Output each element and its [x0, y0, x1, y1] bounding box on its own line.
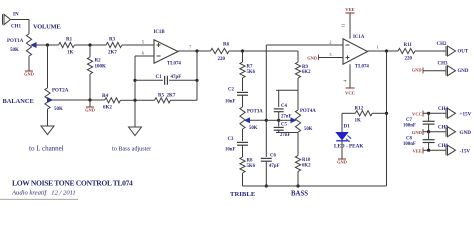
svg-text:to Bass adjuster: to Bass adjuster [112, 146, 151, 153]
pin 2 label IC1A [329, 40, 332, 45]
label BALANCE [3, 98, 34, 105]
svg-text:1K: 1K [355, 119, 362, 124]
resistor R8 5K6 [240, 157, 256, 173]
svg-text:R3: R3 [109, 38, 116, 43]
wire R10 to bottom rail [297, 172, 299, 187]
svg-text:VEE: VEE [345, 7, 354, 12]
wire wiper line to C4C5 node [266, 119, 278, 121]
svg-text:GND: GND [337, 160, 347, 165]
svg-text:27nF: 27nF [280, 133, 290, 138]
connector CH3 ground [438, 62, 456, 76]
svg-text:100nF: 100nF [403, 124, 416, 129]
svg-text:10nF: 10nF [225, 100, 235, 105]
resistor R10 6K2 [295, 156, 311, 172]
wiper POT1A to node A [32, 43, 48, 47]
wire CH1 to volume pot [11, 20, 29, 35]
wire C1 row right [169, 79, 197, 81]
capacitor C2 10nF [225, 88, 248, 105]
connector CH6 -15V [438, 144, 456, 155]
wire rail to bass column [243, 51, 299, 62]
svg-text:6K2: 6K2 [103, 106, 112, 111]
wire IC1B output pin7 [178, 50, 197, 52]
svg-text:R4: R4 [102, 94, 109, 99]
svg-text:to L channel: to L channel [29, 145, 64, 153]
label TRIBLE [230, 191, 256, 198]
svg-text:TL074: TL074 [355, 65, 369, 70]
node F junction C1 right [195, 79, 198, 82]
node J junction C4 C5 wiper [277, 119, 280, 122]
svg-text:47pF: 47pF [171, 75, 182, 80]
svg-text:R5: R5 [158, 94, 165, 99]
svg-text:Audio kreatif 12 / 2011: Audio kreatif 12 / 2011 [11, 190, 76, 197]
svg-text:CH2: CH2 [437, 42, 448, 47]
node E junction C1 left [133, 79, 136, 82]
svg-text:100nF: 100nF [403, 142, 416, 147]
label VOLUME [33, 24, 60, 31]
pin 1 label IC1A [377, 45, 380, 50]
svg-text:50K: 50K [10, 48, 19, 53]
svg-text:C5: C5 [281, 122, 287, 127]
wire D1 to ground [341, 141, 343, 159]
wire bottom feedback rail [243, 185, 387, 187]
svg-text:R10: R10 [302, 158, 311, 163]
resistor R12 1K [342, 107, 387, 124]
wire R8 to bottom rail [242, 173, 244, 186]
power port VCC supply [412, 111, 446, 117]
wire R1 to R3 node [75, 44, 107, 46]
wire POT1A to ground [28, 56, 30, 71]
svg-text:C1: C1 [156, 75, 163, 80]
resistor R3 2K7 [106, 38, 122, 56]
op-amp IC1B triangle [154, 40, 178, 63]
resistor R6 220 [197, 43, 243, 63]
wire output bus down [196, 51, 198, 100]
svg-text:220: 220 [405, 57, 413, 62]
svg-text:C4: C4 [281, 104, 287, 109]
potentiometer POT4A bass 50K [295, 90, 316, 132]
node C junction R2 R4 GND [88, 98, 91, 101]
label IC1A [353, 35, 365, 40]
svg-text:C8: C8 [406, 137, 412, 142]
svg-text:TL074: TL074 [167, 62, 181, 67]
svg-text:100K: 100K [95, 65, 107, 70]
svg-text:GND: GND [458, 69, 469, 74]
potentiometer POT1A volume 50K [7, 34, 32, 56]
label D1 [344, 125, 351, 130]
node M output IC1A [385, 49, 388, 52]
svg-text:6K2: 6K2 [302, 164, 311, 169]
label TL074 of IC1A [355, 65, 369, 70]
node A junction volume wiper [46, 43, 49, 46]
wire output down to rail [386, 51, 388, 186]
svg-text:OUT: OUT [458, 49, 469, 54]
label LED PEAK [334, 144, 363, 150]
wire pin2 from bus [266, 44, 343, 46]
wire C4 to node J [278, 112, 280, 121]
wire R7 to C2 [242, 78, 244, 91]
svg-text:CH6: CH6 [438, 144, 449, 149]
label +15V [460, 112, 472, 118]
capacitor C8 100nF [403, 132, 435, 151]
svg-text:POT2A: POT2A [52, 89, 69, 94]
title text [12, 179, 133, 188]
wiper POT2A to ground node [48, 98, 91, 102]
wire IC1A output [368, 50, 387, 52]
connector CH1 input port [3, 13, 22, 30]
label OUT [458, 49, 469, 54]
svg-text:2K7: 2K7 [108, 51, 117, 56]
svg-text:11: 11 [341, 23, 346, 27]
wiper POT3A [245, 118, 266, 122]
wire inverting bus [265, 45, 267, 157]
connector CH2 output [437, 42, 456, 56]
resistor R2 100K vertical [87, 45, 106, 100]
power port VEE top [345, 7, 354, 13]
svg-text:50K: 50K [304, 127, 313, 132]
ground GND at node C [85, 100, 95, 113]
svg-text:BALANCE: BALANCE [3, 98, 34, 105]
resistor R1 1K [59, 38, 75, 56]
wire C2 to POT3A [242, 95, 244, 107]
svg-text:GND: GND [412, 68, 422, 73]
resistor R9 6K2 [295, 62, 311, 78]
connector CH5 GND [438, 125, 456, 136]
capacitor C5 27nF [274, 120, 291, 138]
node G junction R4 R5 pin6bus [133, 99, 136, 102]
potentiometer POT2A balance 50K [45, 88, 69, 112]
off-page arrow to Bass adjuster [129, 100, 142, 135]
svg-text:-15V: -15V [460, 149, 471, 155]
svg-text:C3: C3 [228, 137, 234, 142]
wire R3 to IC1B pin5 [122, 44, 154, 46]
wire POT3A to C3 [242, 129, 244, 141]
svg-text:10nF: 10nF [225, 148, 235, 153]
svg-text:R2: R2 [95, 59, 102, 64]
pin 6 label IC1B [142, 51, 145, 56]
label GND output [458, 69, 469, 74]
power port GND at pin3 [307, 55, 343, 61]
wire R12 to D1 [341, 113, 343, 132]
potentiometer POT3A treble 50K [240, 107, 263, 131]
wire C5 to bass bottom node [276, 130, 298, 132]
svg-text:R11: R11 [404, 43, 413, 48]
label to L channel [29, 145, 64, 153]
svg-text:IC1B: IC1B [154, 30, 166, 35]
capacitor C3 10nF [225, 137, 248, 153]
svg-text:VCC: VCC [345, 91, 355, 96]
svg-text:27nF: 27nF [281, 115, 291, 120]
pin 3 label IC1A [329, 52, 332, 57]
wire C6 to bottom rail [265, 161, 267, 186]
svg-text:1K: 1K [67, 51, 74, 56]
wire C3 to R8 [242, 145, 244, 157]
capacitor C4 27nF [274, 104, 292, 120]
ground GND below D1 [337, 159, 347, 165]
resistor R11 220 [387, 43, 447, 62]
resistor R4 6K2 [90, 94, 135, 111]
pin 11 wire and VEE [341, 13, 351, 39]
svg-text:R12: R12 [355, 107, 364, 112]
svg-text:R6: R6 [223, 43, 230, 48]
svg-text:50K: 50K [54, 107, 63, 112]
node L bottom rail bass [296, 184, 299, 187]
node N junction R12 [385, 112, 388, 115]
label IC1B [154, 30, 166, 35]
node K bottom rail treble bus [265, 184, 268, 187]
svg-text:47pF: 47pF [269, 164, 279, 169]
wire pin6 bus down [134, 56, 136, 126]
node Q junction GND bus [427, 130, 430, 133]
svg-text:GND: GND [85, 108, 95, 113]
wiper POT4A [279, 118, 296, 122]
svg-text:R8: R8 [247, 159, 253, 164]
svg-text:VEE: VEE [413, 149, 422, 154]
connector CH4 +15V [438, 107, 456, 118]
node H junction treble top [241, 49, 244, 52]
svg-text:R7: R7 [247, 65, 253, 70]
label GND supply [460, 130, 472, 136]
off-page arrow to L channel [41, 126, 54, 135]
label BASS [291, 191, 308, 198]
svg-text:50K: 50K [249, 126, 258, 131]
node B junction R2 top [88, 43, 91, 46]
svg-text:D1: D1 [344, 125, 351, 130]
wire bass to R10 [297, 133, 299, 156]
svg-text:CH3: CH3 [438, 62, 449, 67]
power port VEE supply [413, 148, 446, 154]
pin 5 label IC1B [142, 40, 145, 45]
power port GND to CH3 [412, 68, 446, 74]
wire node A to R1 [48, 44, 59, 46]
label TL074 of IC1B [167, 62, 181, 67]
svg-text:GND: GND [412, 130, 423, 135]
capacitor C1 47pF [156, 75, 182, 85]
svg-text:CH1: CH1 [11, 25, 22, 30]
svg-text:C2: C2 [228, 88, 234, 93]
svg-text:6K2: 6K2 [302, 70, 311, 75]
wire POT2A to L-channel arrow [47, 109, 49, 126]
svg-text:IC1A: IC1A [353, 35, 365, 40]
node D output IC1B junction [195, 49, 198, 52]
svg-text:POT1A: POT1A [7, 39, 24, 44]
svg-text:CH4: CH4 [438, 107, 449, 112]
svg-text:+15V: +15V [460, 112, 472, 118]
svg-text:220: 220 [218, 57, 226, 62]
wire node A down to POT2A [47, 45, 49, 88]
capacitor C7 100nF [403, 113, 435, 131]
resistor R7 5K6 [240, 51, 256, 78]
power port GND supply [412, 129, 446, 135]
title block line [0, 198, 78, 200]
svg-text:TRIBLE: TRIBLE [230, 191, 256, 198]
label -15V [460, 149, 471, 155]
pin 7 label IC1B [189, 45, 192, 50]
svg-text:LOW NOISE TONE CONTROL TL074: LOW NOISE TONE CONTROL TL074 [12, 179, 133, 188]
pin 4 wire and VCC [343, 64, 351, 88]
svg-text:CH5: CH5 [438, 125, 449, 130]
op-amp IC1A triangle [343, 39, 368, 64]
svg-text:VOLUME: VOLUME [33, 24, 60, 31]
subtitle text [11, 190, 76, 197]
svg-text:POT3A: POT3A [247, 110, 263, 115]
LED D1 [336, 133, 351, 143]
svg-text:IN: IN [13, 13, 19, 18]
svg-text:C7: C7 [406, 118, 412, 123]
power port VCC bottom [345, 88, 355, 96]
svg-text:C6: C6 [270, 154, 276, 159]
svg-text:BASS: BASS [291, 191, 308, 198]
wire R9 to bass top node [276, 78, 298, 107]
wire IC1B pin6 [135, 55, 154, 57]
ground GND below POT1A [24, 71, 34, 77]
resistor R5 2K7 feedback [135, 94, 197, 103]
svg-text:5K6: 5K6 [247, 164, 256, 169]
svg-text:GND: GND [307, 56, 317, 61]
node P junction VCC bus [427, 112, 430, 115]
node I wiper bus junction [265, 119, 268, 122]
svg-text:R1: R1 [66, 38, 73, 43]
svg-text:LED - PEAK: LED - PEAK [334, 144, 363, 150]
svg-text:5K6: 5K6 [247, 70, 256, 75]
node R junction VEE bus [427, 149, 430, 152]
svg-text:GND: GND [460, 130, 472, 136]
capacitor C6 47pF [261, 154, 280, 170]
svg-text:2K7: 2K7 [167, 94, 176, 99]
label to Bass adjuster [112, 146, 151, 153]
svg-text:GND: GND [24, 72, 34, 77]
wire C1 row left [135, 79, 163, 81]
svg-text:POT4A: POT4A [300, 109, 316, 114]
svg-text:VCC: VCC [412, 112, 422, 117]
